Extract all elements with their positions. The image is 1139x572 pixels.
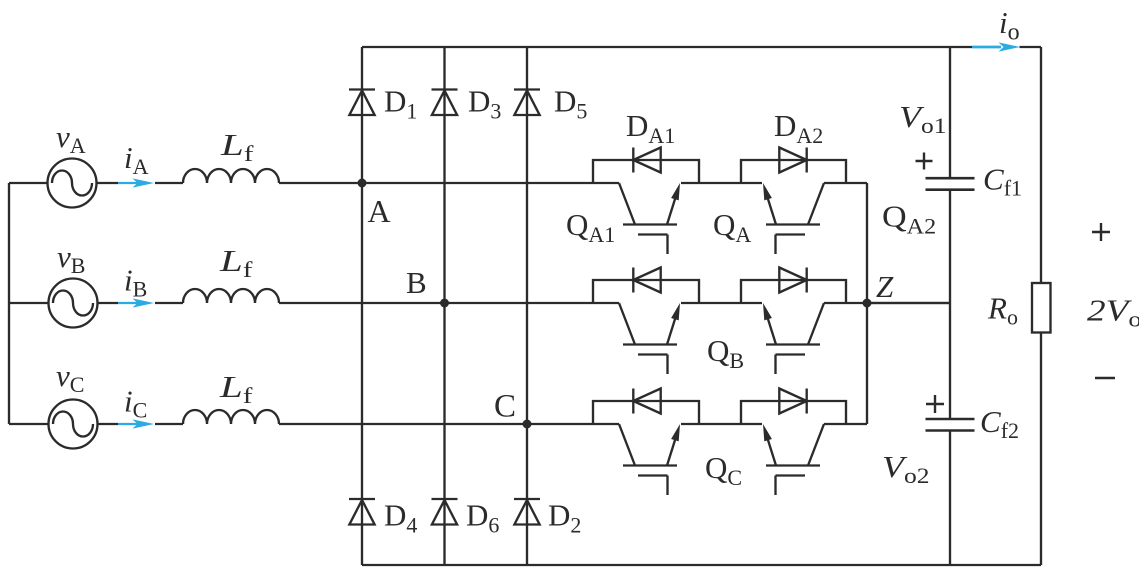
diode D1: [349, 90, 375, 116]
current arrow iA: [118, 178, 154, 187]
resistor Ro: [1032, 283, 1051, 333]
diode D3: [432, 90, 458, 116]
wire Z to capacitor midpoint: [867, 302, 950, 304]
capacitor Cf2: [926, 419, 975, 431]
wire C-to-Z vertical: [866, 303, 868, 424]
body diode QB right: [779, 268, 806, 293]
source vB: [49, 279, 98, 328]
wire diode loop row C left: [593, 401, 699, 424]
wire top bus: [362, 46, 1041, 48]
inductor Lf row B: [183, 289, 279, 303]
wire capacitor leg: [949, 47, 951, 565]
wire phase A row: [9, 182, 867, 184]
transistor QC right: [763, 424, 824, 495]
wire output right leg: [1040, 47, 1042, 565]
node Z: [863, 299, 872, 308]
wire left bus vertical: [8, 183, 10, 424]
wire bottom bus: [362, 564, 1041, 566]
body diode QC left: [633, 389, 660, 414]
current arrow io: [972, 42, 1020, 51]
body diode QB left: [633, 268, 660, 293]
node A: [358, 179, 367, 188]
wire diode leg column 2: [443, 47, 445, 565]
wire diode loop row C right: [741, 401, 846, 424]
transistor QB right: [763, 303, 824, 374]
current arrow iB: [118, 298, 154, 307]
wire phase C row: [9, 423, 867, 425]
node C: [523, 420, 532, 429]
diode DA2: [779, 148, 806, 173]
transistor QA: [763, 183, 824, 254]
wire phase B row: [9, 302, 950, 304]
diode D2: [514, 499, 540, 525]
plus sign Cf2: [926, 395, 944, 413]
wire diode loop row B left: [593, 280, 699, 303]
plus sign Cf1: [916, 153, 933, 170]
source vA: [48, 159, 97, 208]
diode D5: [514, 90, 540, 116]
node B: [440, 299, 449, 308]
wire diode leg column 3: [526, 47, 528, 565]
minus sign output: [1095, 377, 1115, 380]
transistor QB left: [619, 303, 680, 374]
wire QA2 vertical A-to-Z: [866, 183, 868, 303]
plus sign output: [1092, 223, 1110, 241]
transistor QC left: [619, 424, 680, 495]
body diode QC right: [779, 389, 806, 414]
diode DA1: [633, 148, 660, 173]
svg-text:A: A: [368, 193, 391, 229]
wire DA2 snubber loop row A right: [741, 160, 846, 183]
diode D4: [349, 499, 375, 525]
wire diode loop row B right: [741, 280, 846, 303]
inductor Lf row C: [183, 410, 279, 424]
svg-text:C: C: [494, 389, 516, 425]
inductor Lf row A: [183, 169, 279, 183]
transistor QA1: [619, 183, 680, 254]
svg-text:B: B: [406, 265, 427, 300]
svg-text:Z: Z: [876, 269, 894, 304]
capacitor Cf1: [926, 178, 975, 190]
diode D6: [432, 499, 458, 525]
source vC: [49, 400, 98, 449]
wire DA1 snubber loop row A left: [593, 160, 699, 183]
current arrow iC: [118, 419, 154, 428]
wire diode leg column 1: [361, 47, 363, 565]
